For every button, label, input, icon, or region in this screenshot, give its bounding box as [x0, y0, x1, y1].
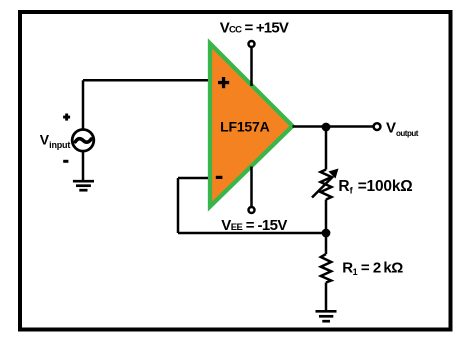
label: VEE = -15V	[221, 217, 287, 234]
label: Vinput	[40, 131, 71, 149]
svg-text:VEE = -15V: VEE = -15V	[221, 217, 287, 234]
terminal VEE	[249, 207, 255, 213]
wire: non-inverting input horizontal	[83, 79, 208, 82]
svg-text:Vinput: Vinput	[40, 131, 71, 149]
wire: Vcc to op-amp	[250, 47, 253, 86]
wire: junction down to Rf	[325, 127, 328, 170]
wire: feedback vertical	[177, 178, 180, 233]
svg-text:R1 = 2 kΩ: R1 = 2 kΩ	[342, 260, 403, 278]
label: R1 = 2kΩ	[342, 260, 403, 278]
wire: Rf to node B	[325, 200, 328, 234]
op-amp U1 LF157A	[210, 44, 293, 207]
terminal Voutput	[374, 123, 381, 130]
wire: R1 to ground	[325, 283, 328, 311]
source Vinput (AC)	[72, 130, 94, 152]
ground (input)	[73, 181, 94, 190]
svg-text:LF157A: LF157A	[220, 118, 269, 134]
wire: input vertical to source	[82, 80, 85, 129]
wire: feedback bottom horizontal	[178, 232, 326, 235]
wire: inverting input horizontal	[178, 177, 208, 180]
wire: VEE from op-amp	[250, 167, 253, 208]
node: output junction	[322, 123, 331, 132]
resistor Rf (variable 100k)	[312, 169, 339, 200]
terminal Vcc	[249, 41, 255, 47]
ground (output divider)	[316, 311, 337, 321]
svg-text:Rf =100kΩ: Rf =100kΩ	[338, 178, 412, 196]
label: Rf =100kΩ	[338, 178, 412, 196]
label: source polarity +	[63, 114, 70, 121]
wire: source to ground	[82, 151, 85, 180]
svg-text:Voutput: Voutput	[386, 120, 419, 138]
label: Voutput	[386, 120, 419, 138]
wire: node B down to R1	[325, 233, 328, 254]
label: source polarity -	[63, 160, 68, 163]
svg-text:VCC = +15V: VCC = +15V	[220, 20, 289, 37]
node B junction	[322, 229, 331, 238]
wire: output horizontal	[293, 125, 374, 128]
resistor R1	[321, 254, 331, 283]
label: Vcc = +15V	[220, 20, 289, 37]
